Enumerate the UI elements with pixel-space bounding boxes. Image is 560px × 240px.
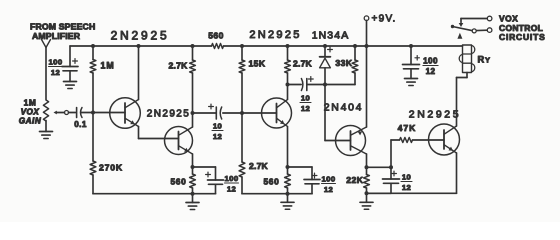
svg-text:10: 10 [301,94,310,103]
capacitor C5 100/12 (stage2 emitter bypass) [304,179,320,181]
wire: Q4 emitter to +9V rail [366,46,368,127]
svg-text:VOX: VOX [21,108,40,117]
capacitor C8 100/12 (supply filter) [410,46,412,65]
node: base junction (1M/270K) [91,111,95,115]
resistor R9 560 (stage2 emitter) [287,167,289,174]
svg-text:12: 12 [426,67,436,76]
svg-text:47K: 47K [398,123,417,133]
wire: detector node down to Q4 base [324,85,326,141]
node: stage1 emitter top [191,165,195,169]
node: 22K bottom / ground node [365,191,369,195]
capacitor C7 10/12 (detector filter) [390,167,392,179]
relay Ry coil [463,45,472,73]
svg-text:CIRCUITS: CIRCUITS [499,32,546,42]
wire: 47K to Q5 base [413,139,445,141]
svg-text:Y: Y [485,56,490,65]
capacitor C4 10/12 coupling (Q2 to Q3) [193,112,217,114]
transistor Q4 2N404 (PNP) [336,126,366,156]
wire: Q4 collector down [366,154,368,167]
svg-text:2N2925: 2N2925 [147,109,190,120]
svg-text:R: R [478,55,485,65]
node: Q2 collector / coupling node [191,111,195,115]
svg-text:0.1: 0.1 [74,120,87,129]
relay moving contact circle [472,29,476,33]
svg-text:AMPLIFIER: AMPLIFIER [32,31,81,41]
wire: C8 to ground [410,69,412,79]
relay contact: upper fixed contact wire [461,18,487,20]
capacitor C1 100/12 electrolytic (input filter) [62,66,78,68]
svg-text:560: 560 [263,177,279,187]
resistor R7 2.7K (Q3 base lower divider) [241,113,243,162]
wire: C6 to detector node [308,84,356,86]
svg-text:VOX: VOX [499,13,518,23]
wire: wiper circle to C2 [69,112,76,114]
wire: C1 to ground [69,71,71,82]
node: stage1 emitter bottom [191,192,195,196]
node: detector node [323,83,327,87]
wire: stage2 bypass bottom [311,184,313,194]
resistor R10 33K [354,46,356,60]
wire: pot to ground [45,121,47,132]
relay armature [453,27,473,31]
svg-text:12: 12 [213,132,222,141]
polarity + (C6) [308,78,313,80]
svg-text:100: 100 [48,58,62,67]
polarity + (C7) [392,173,397,175]
wire: Q3 collector to C6 [288,84,302,86]
input terminal arrow (from speech amplifier) [42,40,51,48]
resistor R2 1M (base bias) [92,46,94,60]
svg-text:12: 12 [51,68,60,77]
node: Q3 collector node [286,83,290,87]
wire: bypass branch bottom [215,184,217,193]
ground (stage1 emitter) [192,194,194,203]
svg-text:560: 560 [208,31,224,41]
node: 15K / Q3 base junction [240,111,244,115]
relay action arrow [457,33,462,39]
resistor R12 47K [400,138,413,143]
resistor 560 (supply decoupling, in rail) [212,44,224,49]
polarity + (D1) [328,49,333,51]
polarity + (C4) [209,106,214,108]
resistor R4 2.7K (stage1 collector load) [192,46,194,60]
node: rail junction at 2.7K stage1 [191,44,195,48]
wire: riser up to 47K [390,140,392,167]
polarity + (C5) [312,175,317,177]
svg-text:560: 560 [170,177,186,187]
wire: moving contact to terminal [476,29,487,31]
wire: Q5 collector up to relay coil [456,78,458,127]
polarity + (C3) [206,174,211,176]
wire: Q2 emitter down [192,154,194,167]
pot wiper terminal circle [65,111,69,115]
node: rail junction at Q1 collector [137,44,141,48]
svg-text:1M: 1M [24,98,37,108]
wire: C7 bottom to ground bus [390,183,392,193]
wire: R7 bottom to stage2 emitter bus [242,193,288,195]
wire: Q1 emitter down and to Q2 base [138,127,140,139]
svg-text:270K: 270K [99,163,123,173]
wire: C2 to Q1 base [82,112,126,114]
svg-text:22K: 22K [346,175,364,185]
svg-text:10: 10 [402,173,411,182]
resistor R11 22K [366,167,368,174]
ground (C8) [405,78,418,80]
resistor R5 560 (stage1 emitter) [192,167,194,174]
wire: C4 to Q3 base [223,112,277,114]
node: +9V junction [365,44,369,48]
svg-text:100: 100 [423,57,438,66]
node: stage2 emitter top [286,165,290,169]
svg-text:12: 12 [324,185,333,194]
svg-text:1N34A: 1N34A [312,30,350,42]
capacitor C2 0.1 coupling [76,108,78,118]
polarity + (C8) [415,57,419,59]
node: stage2 emitter bottom [286,192,290,196]
svg-text:100: 100 [224,174,238,183]
svg-text:15K: 15K [249,59,266,69]
ground (C1) [64,81,77,83]
svg-text:12: 12 [227,184,236,193]
svg-text:2.7K: 2.7K [293,59,313,69]
wire: Q4 collector to C7/47K riser [367,166,392,168]
svg-text:10: 10 [213,122,222,131]
pot wiper arrow [57,112,65,114]
transistor Q5 2N2925 [429,124,460,155]
capacitor C6 10/12 coupling (Q3 to detector) [301,79,303,91]
wire: Q3 emitter down [287,127,289,168]
svg-text:12: 12 [301,104,310,113]
transistor Q2 2N2925 [165,127,193,155]
svg-text:2N2925: 2N2925 [249,29,301,41]
resistor R3 270K [92,113,94,162]
node: rail junction at 1M [91,44,95,48]
node: rail junction at filter cap [409,44,413,48]
wire: Q1 collector to rail [138,46,140,100]
polarity + (C1) [73,60,78,62]
node: rail junction at 33K [353,44,357,48]
terminal: VOX control lower [487,28,492,33]
terminal +9V [364,16,369,21]
wire: bypass branch top [193,166,216,168]
svg-text:2.7K: 2.7K [249,161,269,171]
ground (stage4) [366,193,368,202]
relay contact: fixed contact point [459,23,464,27]
svg-text:12: 12 [402,183,411,192]
node: rail junction at 2.7K stage2 [286,44,290,48]
svg-text:2N2925: 2N2925 [409,109,461,121]
svg-text:33K: 33K [335,58,353,68]
capacitor C3 100/12 (stage1 emitter bypass) [208,179,224,181]
wire: Q5 emitter down to ground bus [456,153,458,193]
svg-text:2N404: 2N404 [324,102,363,114]
svg-text:2.7K: 2.7K [169,61,189,71]
wire: top supply rail [70,45,212,47]
wire: rail end down to filter cap C1 [69,46,71,67]
wire: Q2 collector up [192,113,194,127]
resistor R6 15K [241,46,243,60]
svg-text:100: 100 [321,175,335,184]
node: Q4 collector node [365,165,369,169]
node: rail junction at diode [323,44,327,48]
wire: input to pot [45,48,47,100]
wire: Q3 collector up [287,85,289,100]
ground (pot) [40,131,53,133]
svg-text:GAIN: GAIN [19,117,42,126]
potentiometer 1M VOX GAIN [43,100,48,121]
node: riser junction [389,165,393,169]
node: rail junction at 15K [240,44,244,48]
svg-text:1M: 1M [101,61,115,71]
wire: stage2 bypass top [288,166,313,168]
ground (stage2 emitter) [287,194,289,203]
wire: 270K bottom to emitter ground bus [93,193,193,195]
transistor Q1 2N2925 [110,98,141,129]
transistor Q3 2N2925 [262,98,292,128]
resistor R8 2.7K (stage2 collector load) [287,46,289,60]
svg-text:+9V.: +9V. [372,14,397,25]
diode D1 1N34A [324,46,326,57]
svg-text:2N2925: 2N2925 [111,29,170,43]
terminal: VOX control upper [487,16,492,21]
